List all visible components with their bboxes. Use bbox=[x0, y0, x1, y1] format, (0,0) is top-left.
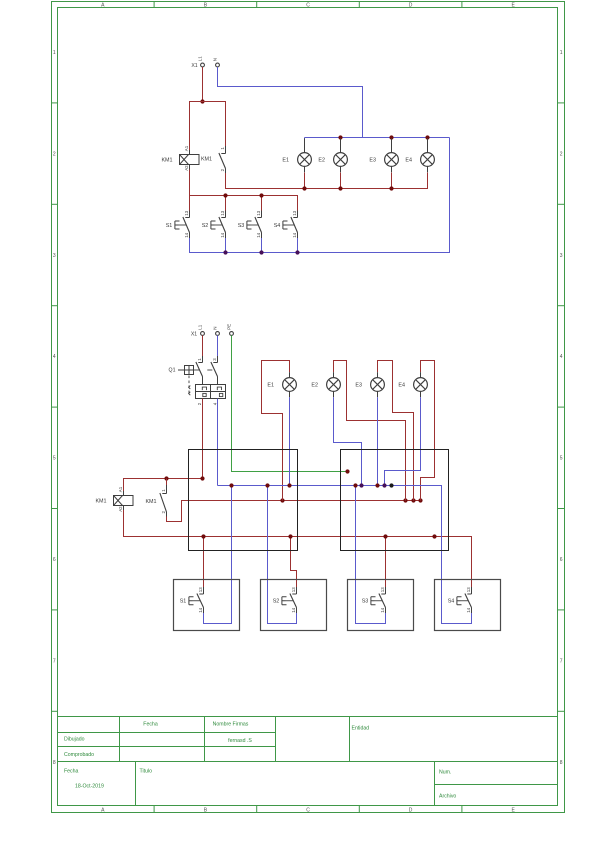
node lamp bottom E3 bbox=[389, 186, 393, 190]
lamp E1 (top circuit) bbox=[282, 138, 311, 172]
wire lamp top bus bbox=[305, 137, 450, 139]
wire E1 top corner bbox=[304, 138, 306, 148]
svg-text:Q1: Q1 bbox=[169, 368, 176, 374]
svg-text:KM1: KM1 bbox=[161, 157, 172, 163]
junction box right bbox=[341, 450, 449, 551]
svg-text:Dibujado: Dibujado bbox=[64, 737, 85, 743]
wire E2 feed bbox=[334, 361, 406, 501]
svg-text:A2: A2 bbox=[118, 506, 123, 512]
svg-text:E1: E1 bbox=[282, 157, 289, 163]
node lamp bus E4 bbox=[425, 135, 429, 139]
svg-text:Archivo: Archivo bbox=[439, 794, 456, 800]
node A2 bus S2 bbox=[288, 534, 292, 538]
svg-text:13: 13 bbox=[466, 587, 471, 592]
pushbutton S4 (bottom circuit) bbox=[448, 587, 472, 613]
svg-text:C: C bbox=[306, 3, 310, 9]
lamp E2 (top circuit) bbox=[318, 138, 347, 172]
svg-text:S1: S1 bbox=[180, 599, 187, 605]
button box S2 bbox=[261, 580, 327, 631]
node N bus S2 bbox=[265, 483, 269, 487]
svg-text:14: 14 bbox=[198, 607, 203, 612]
svg-text:14: 14 bbox=[466, 607, 471, 612]
wire S3 feed bbox=[385, 537, 387, 589]
svg-text:KM1: KM1 bbox=[201, 157, 212, 163]
svg-text:X1: X1 bbox=[191, 331, 197, 337]
wire L1 to Q1 bbox=[202, 335, 204, 356]
wire pushbutton bottom bus to N bbox=[190, 138, 450, 253]
wire S2 top stub bbox=[225, 196, 227, 211]
wire S1 top stub bbox=[189, 196, 191, 211]
svg-text:5: 5 bbox=[560, 456, 563, 462]
svg-text:13: 13 bbox=[292, 210, 297, 215]
wire E3 feed bbox=[378, 361, 414, 501]
svg-text:13: 13 bbox=[291, 587, 296, 592]
svg-text:13: 13 bbox=[380, 587, 385, 592]
svg-text:3: 3 bbox=[53, 253, 56, 259]
wire E4 return bbox=[385, 397, 421, 485]
svg-text:4: 4 bbox=[53, 354, 56, 360]
svg-text:A2: A2 bbox=[184, 165, 189, 171]
svg-text:D: D bbox=[409, 807, 413, 813]
contact KM1 (bottom circuit) bbox=[145, 485, 166, 517]
svg-text:Comprobado: Comprobado bbox=[64, 752, 94, 758]
wire N bus bbox=[218, 486, 472, 624]
svg-text:N: N bbox=[212, 58, 217, 61]
pushbutton S1 (bottom circuit) bbox=[180, 587, 204, 613]
node A2 bus S3 bbox=[383, 534, 387, 538]
node A1 bus contact bbox=[164, 476, 168, 480]
wire contact KM1 top stub bbox=[166, 479, 168, 486]
frame row labels 1-8 bbox=[52, 50, 565, 766]
node N bus E3 bbox=[375, 483, 379, 487]
wire PE drop and run bbox=[232, 335, 348, 471]
svg-text:2: 2 bbox=[560, 151, 563, 157]
lamp E3 (top circuit) bbox=[369, 138, 398, 172]
svg-text:S4: S4 bbox=[274, 223, 281, 229]
svg-text:13: 13 bbox=[256, 210, 261, 215]
svg-text:E3: E3 bbox=[369, 157, 376, 163]
lamp E3 (bottom circuit) bbox=[355, 372, 384, 397]
title block text bbox=[64, 722, 456, 800]
svg-text:14: 14 bbox=[184, 232, 189, 237]
wire E1 bottom stub bbox=[304, 173, 306, 189]
node lamp bottom E2 bbox=[338, 186, 342, 190]
border inner frame bbox=[58, 8, 558, 806]
svg-text:X1: X1 bbox=[191, 63, 197, 69]
title block grid bbox=[58, 717, 558, 806]
node N bus S3 bbox=[353, 483, 357, 487]
svg-text:6: 6 bbox=[53, 557, 56, 563]
node bus S2 bbox=[223, 193, 227, 197]
node N bus E4 bbox=[382, 483, 386, 487]
wire E1 feed bbox=[262, 361, 290, 501]
node A1 bus Q1 bbox=[200, 476, 204, 480]
contact KM1 (top circuit) bbox=[201, 146, 226, 173]
svg-text:14: 14 bbox=[380, 607, 385, 612]
svg-text:PE: PE bbox=[226, 324, 231, 330]
button box S4 bbox=[435, 580, 501, 631]
node bottom bus S4 bbox=[295, 250, 299, 254]
svg-text:3: 3 bbox=[560, 253, 563, 259]
node N bus E1 bbox=[287, 483, 291, 487]
svg-text:S3: S3 bbox=[362, 599, 369, 605]
wire Q1 L out bbox=[202, 399, 204, 479]
node L1 junction bbox=[200, 99, 204, 103]
svg-text:1: 1 bbox=[53, 50, 56, 56]
svg-text:Fecha: Fecha bbox=[143, 722, 158, 728]
svg-text:E3: E3 bbox=[355, 382, 362, 388]
svg-text:2: 2 bbox=[53, 151, 56, 157]
wire E4 feed bbox=[421, 361, 435, 501]
node N bus S1 bbox=[229, 483, 233, 487]
svg-text:8: 8 bbox=[560, 760, 563, 766]
svg-text:14: 14 bbox=[220, 232, 225, 237]
svg-text:KM1: KM1 bbox=[95, 498, 106, 504]
button box S3 bbox=[348, 580, 414, 631]
frame column labels A-E bbox=[101, 2, 515, 814]
wire contact to lamp bottom bus bbox=[226, 173, 428, 189]
circuit breaker Q1 bbox=[169, 356, 226, 405]
pushbutton S2 (bottom circuit) bbox=[273, 587, 297, 613]
svg-text:E1: E1 bbox=[267, 382, 274, 388]
node bottom bus S3 bbox=[259, 250, 263, 254]
svg-text:5: 5 bbox=[53, 456, 56, 462]
junction box left bbox=[189, 450, 298, 551]
wire S2 return bbox=[268, 486, 297, 624]
button box S1 bbox=[174, 580, 240, 631]
node bottom bus S2 bbox=[223, 250, 227, 254]
svg-text:18-Oct-2019: 18-Oct-2019 bbox=[75, 783, 104, 789]
node lamp bus E2 bbox=[338, 135, 342, 139]
svg-text:13: 13 bbox=[220, 210, 225, 215]
node lamp bottom E1 bbox=[302, 186, 306, 190]
lamp E4 (top circuit) bbox=[405, 138, 434, 172]
lamp E1 (bottom circuit) bbox=[267, 372, 296, 397]
svg-text:8: 8 bbox=[53, 760, 56, 766]
wire S1 feed bbox=[203, 537, 205, 589]
svg-text:L1: L1 bbox=[197, 56, 202, 61]
svg-text:E4: E4 bbox=[405, 157, 412, 163]
svg-text:KM1: KM1 bbox=[145, 499, 156, 505]
wire S1 return bbox=[204, 486, 232, 624]
node lamp bus E1 feed bbox=[280, 498, 284, 502]
node N bus E2 bbox=[359, 483, 363, 487]
svg-text:A1: A1 bbox=[184, 145, 189, 151]
pushbutton S3 (bottom circuit) bbox=[362, 587, 386, 613]
contactor coil KM1 (top circuit) bbox=[161, 145, 199, 171]
pushbutton S3 (top circuit) bbox=[238, 210, 262, 238]
wire S2 feed bbox=[291, 537, 297, 589]
svg-text:6: 6 bbox=[560, 557, 563, 563]
svg-text:fernasd .S: fernasd .S bbox=[228, 738, 252, 744]
svg-text:S4: S4 bbox=[448, 599, 455, 605]
wire contact KM1 to lamp bus bbox=[167, 501, 421, 522]
wire E3 bottom stub bbox=[391, 173, 393, 189]
node PE end bbox=[345, 469, 349, 473]
node A2 bus S1 bbox=[201, 534, 205, 538]
node bus S3 bbox=[259, 193, 263, 197]
svg-text:1: 1 bbox=[560, 50, 563, 56]
node lamp bus E3 bbox=[389, 135, 393, 139]
lamp E2 (bottom circuit) bbox=[311, 372, 340, 397]
wire S2 bottom stub bbox=[225, 238, 227, 253]
wire E2 bottom stub bbox=[340, 173, 342, 189]
wire L1 drop bbox=[202, 67, 204, 102]
pushbutton S1 (top circuit) bbox=[166, 210, 190, 238]
svg-text:C: C bbox=[306, 807, 310, 813]
wire S3 bottom stub bbox=[261, 238, 263, 253]
wire A1 bus bbox=[124, 479, 203, 496]
wire S4 bottom stub bbox=[297, 238, 299, 253]
wire E1 return bbox=[289, 397, 291, 485]
svg-text:S3: S3 bbox=[238, 223, 245, 229]
wire S3 return bbox=[356, 486, 386, 624]
svg-text:S2: S2 bbox=[273, 599, 280, 605]
svg-text:Num.: Num. bbox=[439, 769, 451, 775]
svg-text:14: 14 bbox=[292, 232, 297, 237]
svg-text:E2: E2 bbox=[318, 157, 325, 163]
svg-text:Titulo: Titulo bbox=[140, 768, 153, 774]
terminal X1 (bottom circuit) bbox=[191, 324, 234, 338]
svg-text:7: 7 bbox=[560, 658, 563, 664]
terminal X1 (top circuit) bbox=[191, 56, 219, 69]
node lamp bus E4 feed bbox=[418, 498, 422, 502]
svg-text:A1: A1 bbox=[118, 486, 123, 492]
wire N feed bbox=[218, 67, 363, 138]
svg-text:4: 4 bbox=[560, 354, 563, 360]
svg-text:D: D bbox=[409, 3, 413, 9]
svg-text:13: 13 bbox=[184, 210, 189, 215]
svg-text:14: 14 bbox=[291, 607, 296, 612]
wire A2 bus to S buttons bbox=[124, 510, 472, 588]
wire E3 return bbox=[377, 397, 379, 485]
node A2 bus S4 bbox=[432, 534, 436, 538]
svg-text:7: 7 bbox=[53, 658, 56, 664]
wire N to Q1 bbox=[217, 335, 219, 356]
contactor coil KM1 (bottom circuit) bbox=[95, 486, 133, 512]
wire coil A2 to pushbutton bus bbox=[190, 170, 298, 211]
svg-text:14: 14 bbox=[256, 232, 261, 237]
wire Q1 N out bbox=[217, 399, 219, 486]
svg-text:Entidad: Entidad bbox=[352, 726, 370, 732]
svg-text:E4: E4 bbox=[398, 382, 405, 388]
svg-text:L1: L1 bbox=[197, 324, 202, 329]
lamp E4 (bottom circuit) bbox=[398, 372, 427, 397]
svg-text:E2: E2 bbox=[311, 382, 318, 388]
wire L1 branch to coil and contact bbox=[190, 102, 226, 151]
svg-text:S2: S2 bbox=[202, 223, 209, 229]
svg-text:13: 13 bbox=[198, 587, 203, 592]
svg-text:Fecha: Fecha bbox=[64, 768, 79, 774]
wire E2 return bbox=[334, 397, 362, 485]
node lamp bus E2 feed bbox=[403, 498, 407, 502]
svg-text:Nombre Firmas: Nombre Firmas bbox=[213, 722, 249, 728]
pushbutton S4 (top circuit) bbox=[274, 210, 298, 238]
svg-text:N: N bbox=[212, 327, 217, 330]
pushbutton S2 (top circuit) bbox=[202, 210, 226, 238]
wire S3 top stub bbox=[261, 196, 263, 211]
node lamp bus E3 feed bbox=[411, 498, 415, 502]
svg-text:S1: S1 bbox=[166, 223, 173, 229]
node N bus black bbox=[389, 483, 393, 487]
